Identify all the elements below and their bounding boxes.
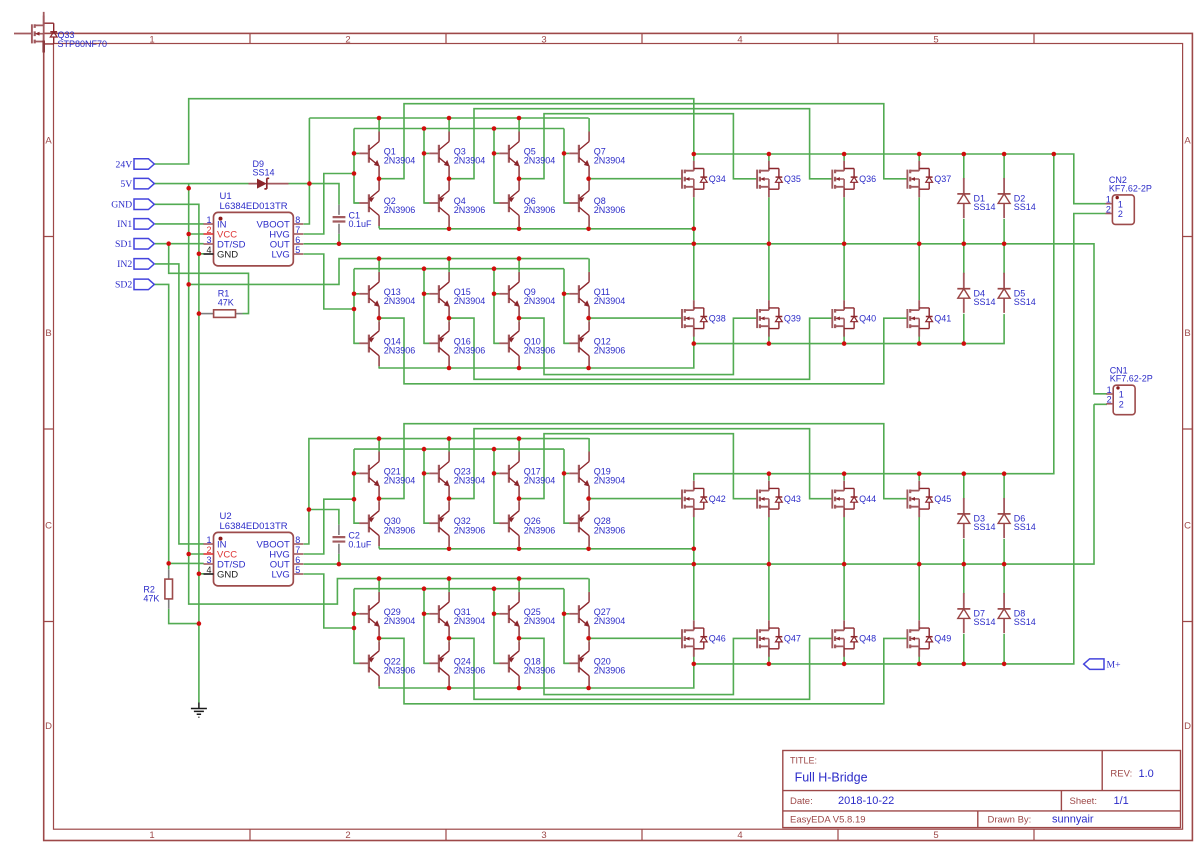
svg-text:Q34: Q34 — [709, 174, 726, 184]
svg-text:LVG: LVG — [271, 249, 289, 260]
diode D2 SS14 — [998, 178, 1011, 218]
svg-text:1: 1 — [149, 34, 154, 45]
transistor Q1 2N3904 — [354, 118, 380, 179]
diode D8 SS14 — [998, 593, 1011, 633]
svg-text:47K: 47K — [143, 593, 159, 603]
svg-text:2: 2 — [1106, 204, 1111, 214]
svg-text:5: 5 — [295, 245, 300, 255]
svg-text:Q48: Q48 — [859, 634, 876, 644]
transistor Q4 2N3906 — [424, 179, 449, 229]
wire pnp rail A2 — [379, 344, 694, 368]
wire HVG2 net — [304, 449, 570, 554]
svg-text:8: 8 — [295, 535, 300, 545]
svg-text:SS14: SS14 — [974, 617, 996, 627]
svg-text:Q43: Q43 — [784, 494, 801, 504]
svg-text:2N3906: 2N3906 — [384, 205, 416, 215]
transistor Q22 2N3906 — [354, 639, 379, 689]
transistor Q25 2N3904 — [494, 579, 520, 640]
svg-text:Full H-Bridge: Full H-Bridge — [795, 771, 868, 785]
svg-text:SS14: SS14 — [253, 168, 275, 178]
svg-text:2N3904: 2N3904 — [594, 476, 626, 486]
transistor Q27 2N3904 — [564, 579, 590, 640]
svg-text:2N3904: 2N3904 — [454, 476, 486, 486]
svg-text:STP80NF70: STP80NF70 — [58, 39, 108, 49]
svg-text:KF7.62-2P: KF7.62-2P — [1110, 374, 1153, 384]
wire pnp rail A1 — [379, 228, 694, 230]
transistor Q8 2N3906 — [564, 179, 589, 229]
transistor Q40 NMOS — [832, 300, 857, 336]
svg-text:B: B — [1184, 328, 1190, 339]
svg-text:D: D — [1184, 721, 1191, 732]
svg-text:Q45: Q45 — [934, 494, 951, 504]
transistor Q7 2N3904 — [564, 118, 590, 179]
svg-text:2N3904: 2N3904 — [524, 616, 556, 626]
transistor Q9 2N3904 — [494, 259, 520, 320]
transistor Q41 NMOS — [907, 300, 932, 336]
svg-text:2N3906: 2N3906 — [524, 205, 556, 215]
diode D3 SS14 — [957, 498, 970, 538]
wire gate staircase B — [379, 424, 907, 499]
svg-text:Date:: Date: — [790, 796, 813, 807]
svg-text:2N3904: 2N3904 — [384, 156, 416, 166]
svg-text:5: 5 — [933, 830, 938, 841]
title block — [783, 751, 1181, 828]
diode D7 SS14 — [957, 593, 970, 633]
svg-text:2N3906: 2N3906 — [454, 525, 486, 535]
svg-text:7: 7 — [295, 545, 300, 555]
port IN2 — [134, 259, 154, 270]
svg-text:SS14: SS14 — [1014, 297, 1036, 307]
svg-text:IN2: IN2 — [117, 259, 132, 270]
svg-text:0.1uF: 0.1uF — [349, 219, 373, 229]
svg-text:Sheet:: Sheet: — [1070, 796, 1097, 807]
svg-text:1/1: 1/1 — [1114, 795, 1129, 807]
svg-text:24V: 24V — [116, 159, 133, 170]
transistor Q34 NMOS — [682, 161, 707, 197]
svg-text:5V: 5V — [120, 179, 132, 190]
op-amp/driver IC U1 L6384ED013TR — [204, 212, 304, 266]
transistor Q29 2N3904 — [354, 579, 380, 640]
transistor Q37 NMOS — [907, 161, 932, 197]
wire pnp rail B2 — [379, 664, 694, 688]
svg-text:2N3906: 2N3906 — [524, 666, 556, 676]
svg-text:7: 7 — [295, 225, 300, 235]
svg-text:D: D — [45, 721, 52, 732]
ground — [191, 703, 207, 718]
wire LVG1 net — [304, 254, 570, 343]
svg-text:5: 5 — [295, 565, 300, 575]
diode D4 SS14 — [957, 273, 970, 313]
svg-text:2N3906: 2N3906 — [454, 205, 486, 215]
svg-text:2: 2 — [206, 545, 211, 555]
transistor Q43 NMOS — [757, 481, 782, 517]
transistor Q13 2N3904 — [354, 259, 380, 320]
svg-text:5: 5 — [933, 34, 938, 45]
svg-text:2N3904: 2N3904 — [524, 156, 556, 166]
diode D6 SS14 — [998, 498, 1011, 538]
transistor Q5 2N3904 — [494, 118, 520, 179]
svg-text:2N3906: 2N3906 — [384, 666, 416, 676]
transistor Q49 NMOS — [907, 620, 932, 656]
svg-text:LVG: LVG — [271, 569, 289, 580]
port 5V — [134, 178, 154, 189]
transistor Q2 2N3906 — [354, 179, 379, 229]
svg-text:3: 3 — [206, 555, 211, 565]
svg-text:4: 4 — [206, 565, 211, 575]
port SD2 — [134, 279, 154, 290]
resistor R1 47K — [199, 310, 243, 318]
svg-text:Q44: Q44 — [859, 494, 876, 504]
svg-text:Q41: Q41 — [934, 313, 951, 323]
svg-text:sunnyair: sunnyair — [1052, 813, 1094, 825]
svg-text:2N3906: 2N3906 — [384, 346, 416, 356]
wire VBOOT2 net — [304, 439, 589, 544]
svg-text:2: 2 — [1118, 209, 1123, 219]
svg-text:Q37: Q37 — [934, 174, 951, 184]
svg-text:Q35: Q35 — [784, 174, 801, 184]
svg-text:2N3904: 2N3904 — [384, 476, 416, 486]
svg-text:47K: 47K — [218, 297, 234, 307]
svg-text:2N3904: 2N3904 — [384, 296, 416, 306]
svg-text:2N3904: 2N3904 — [524, 296, 556, 306]
transistor Q46 NMOS — [682, 620, 707, 656]
wire SD2 net — [154, 284, 203, 569]
transistor Q26 2N3906 — [494, 499, 519, 549]
svg-text:2: 2 — [345, 830, 350, 841]
wire 5V net — [154, 184, 588, 604]
port SD1 — [134, 238, 154, 249]
capacitor C2 0.1uF — [333, 525, 346, 554]
wire LVG2 net — [304, 574, 570, 663]
svg-text:M+: M+ — [1107, 660, 1121, 671]
transistor Q6 2N3906 — [494, 179, 519, 229]
svg-text:1: 1 — [206, 215, 211, 225]
svg-text:A: A — [45, 135, 52, 146]
wire VBOOT1 net — [289, 118, 589, 224]
svg-text:2N3904: 2N3904 — [594, 296, 626, 306]
transistor Q3 2N3904 — [424, 118, 450, 179]
svg-text:KF7.62-2P: KF7.62-2P — [1109, 183, 1152, 193]
svg-text:SS14: SS14 — [1014, 202, 1036, 212]
svg-text:2N3906: 2N3906 — [594, 346, 626, 356]
port 24V — [134, 159, 154, 170]
svg-text:Q38: Q38 — [709, 313, 726, 323]
svg-text:4: 4 — [737, 830, 742, 841]
svg-text:Q36: Q36 — [859, 174, 876, 184]
transistor Q36 NMOS — [832, 161, 857, 197]
svg-text:2N3906: 2N3906 — [454, 666, 486, 676]
wire 24V net — [154, 99, 1105, 499]
transistor Q47 NMOS — [757, 620, 782, 656]
diode D1 SS14 — [957, 178, 970, 218]
port GND — [134, 199, 154, 210]
svg-text:Q46: Q46 — [709, 634, 726, 644]
port M+ — [1084, 659, 1104, 670]
svg-text:SD2: SD2 — [115, 280, 132, 291]
svg-text:2N3904: 2N3904 — [524, 476, 556, 486]
op-amp/driver IC U2 L6384ED013TR — [204, 532, 304, 586]
transistor Q17 2N3904 — [494, 438, 520, 499]
svg-text:1.0: 1.0 — [1139, 768, 1154, 780]
svg-text:L6384ED013TR: L6384ED013TR — [220, 521, 288, 532]
svg-text:2N3906: 2N3906 — [384, 525, 416, 535]
svg-text:2018-10-22: 2018-10-22 — [838, 795, 894, 807]
svg-text:2N3904: 2N3904 — [594, 616, 626, 626]
transistor Q33 — [14, 12, 57, 53]
wire R2-GND link — [169, 609, 199, 624]
svg-text:2N3906: 2N3906 — [594, 205, 626, 215]
wire gate staircase A2 — [379, 318, 907, 384]
svg-text:SS14: SS14 — [974, 522, 996, 532]
wire SD1 net — [155, 244, 249, 314]
wire GND net — [152, 204, 204, 702]
svg-text:L6384ED013TR: L6384ED013TR — [220, 201, 288, 212]
svg-text:1: 1 — [1107, 385, 1112, 395]
svg-text:GND: GND — [217, 569, 238, 580]
diode D5 SS14 — [998, 273, 1011, 313]
svg-text:Q40: Q40 — [859, 313, 876, 323]
svg-text:SS14: SS14 — [974, 202, 996, 212]
svg-text:2: 2 — [1107, 395, 1112, 405]
wire gate staircase B2 — [379, 638, 907, 704]
svg-text:2: 2 — [345, 34, 350, 45]
svg-text:GND: GND — [217, 249, 238, 260]
transistor Q16 2N3906 — [424, 319, 449, 369]
svg-text:2N3904: 2N3904 — [594, 156, 626, 166]
resistor R2 47K — [165, 569, 173, 609]
wire gate staircase A — [379, 104, 907, 179]
transistor Q21 2N3904 — [354, 438, 380, 499]
transistor Q14 2N3906 — [354, 319, 379, 369]
svg-text:1: 1 — [149, 830, 154, 841]
svg-text:Q42: Q42 — [709, 494, 726, 504]
svg-text:4: 4 — [206, 245, 211, 255]
svg-text:2N3904: 2N3904 — [454, 296, 486, 306]
svg-text:1: 1 — [1118, 199, 1123, 209]
svg-text:A: A — [1184, 135, 1191, 146]
port IN1 — [134, 219, 154, 230]
svg-text:2N3906: 2N3906 — [454, 346, 486, 356]
svg-text:IN1: IN1 — [117, 219, 132, 230]
wire source rail A2 — [694, 314, 1004, 344]
connector CN1 KF7.62-2P — [1106, 385, 1135, 415]
svg-text:Drawn By:: Drawn By: — [988, 814, 1032, 825]
transistor Q10 2N3906 — [494, 319, 519, 369]
wire OUT2/phaseB net — [304, 404, 1108, 620]
svg-text:2N3906: 2N3906 — [524, 525, 556, 535]
svg-text:REV:: REV: — [1110, 769, 1132, 780]
transistor Q28 2N3906 — [564, 499, 589, 549]
transistor Q32 2N3906 — [424, 499, 449, 549]
svg-text:1: 1 — [1106, 195, 1111, 205]
svg-text:2N3906: 2N3906 — [594, 525, 626, 535]
wire IN2 net — [155, 264, 204, 544]
transistor Q30 2N3906 — [354, 499, 379, 549]
svg-text:TITLE:: TITLE: — [790, 756, 817, 766]
transistor Q19 2N3904 — [564, 438, 590, 499]
svg-text:C: C — [1184, 521, 1191, 532]
svg-text:Q49: Q49 — [934, 634, 951, 644]
capacitor C1 0.1uF — [333, 205, 346, 234]
transistor Q18 2N3906 — [494, 639, 519, 689]
svg-text:EasyEDA V5.8.19: EasyEDA V5.8.19 — [790, 814, 866, 825]
wire IN1 net — [155, 223, 204, 225]
transistor Q23 2N3904 — [424, 438, 450, 499]
svg-text:SS14: SS14 — [974, 297, 996, 307]
wire pnp rail B1 — [379, 548, 694, 550]
svg-text:2N3904: 2N3904 — [384, 616, 416, 626]
transistor Q15 2N3904 — [424, 259, 450, 320]
svg-text:3: 3 — [541, 830, 546, 841]
svg-text:2: 2 — [1119, 399, 1124, 409]
svg-text:8: 8 — [295, 215, 300, 225]
transistor Q44 NMOS — [832, 481, 857, 517]
svg-text:Q47: Q47 — [784, 634, 801, 644]
diode D9 SS14 — [249, 178, 289, 189]
svg-text:2: 2 — [206, 225, 211, 235]
svg-text:4: 4 — [737, 34, 742, 45]
wire OUT1/phaseA net — [304, 197, 1108, 394]
svg-text:2N3904: 2N3904 — [454, 156, 486, 166]
svg-text:2N3906: 2N3906 — [524, 346, 556, 356]
svg-text:SD1: SD1 — [115, 239, 132, 250]
svg-text:0.1uF: 0.1uF — [348, 539, 372, 549]
svg-text:GND: GND — [111, 200, 132, 211]
svg-text:2N3904: 2N3904 — [454, 616, 486, 626]
svg-text:1: 1 — [1119, 390, 1124, 400]
transistor Q38 NMOS — [682, 300, 707, 336]
svg-text:1: 1 — [206, 535, 211, 545]
wire HVG1 net — [304, 129, 570, 235]
svg-text:SS14: SS14 — [1014, 522, 1036, 532]
svg-text:3: 3 — [541, 34, 546, 45]
svg-text:3: 3 — [206, 235, 211, 245]
transistor Q31 2N3904 — [424, 579, 450, 640]
svg-text:C: C — [45, 521, 52, 532]
transistor Q24 2N3906 — [424, 639, 449, 689]
wire source rail B2 — [694, 214, 1106, 664]
transistor Q39 NMOS — [757, 300, 782, 336]
svg-text:6: 6 — [295, 235, 300, 245]
transistor Q11 2N3904 — [564, 259, 590, 320]
svg-text:Q39: Q39 — [784, 313, 801, 323]
transistor Q20 2N3906 — [564, 639, 589, 689]
transistor Q45 NMOS — [907, 481, 932, 517]
transistor Q12 2N3906 — [564, 319, 589, 369]
transistor Q42 NMOS — [682, 481, 707, 517]
svg-text:B: B — [45, 328, 51, 339]
svg-text:6: 6 — [295, 555, 300, 565]
transistor Q35 NMOS — [757, 161, 782, 197]
connector CN2 KF7.62-2P — [1106, 195, 1135, 225]
svg-text:SS14: SS14 — [1014, 617, 1036, 627]
svg-text:2N3906: 2N3906 — [594, 666, 626, 676]
transistor Q48 NMOS — [832, 620, 857, 656]
